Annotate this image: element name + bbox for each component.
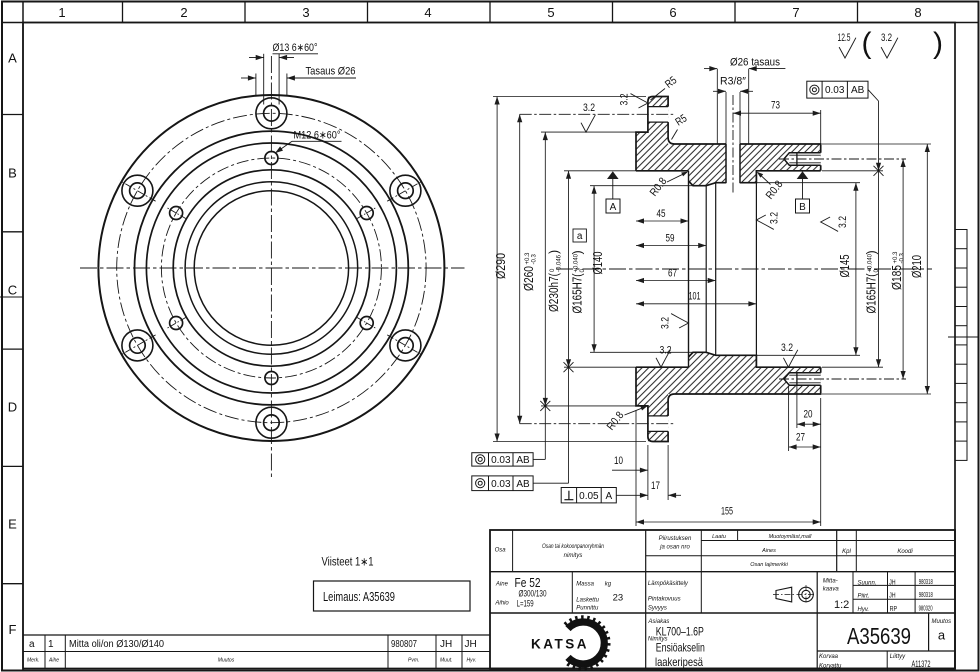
dimension 73 [733,112,821,114]
svg-text:A: A [8,51,17,66]
svg-text:101: 101 [689,291,701,303]
svg-text:A: A [605,491,612,502]
svg-text:67: 67 [668,268,677,280]
svg-text:3.2: 3.2 [583,102,595,114]
front view circle D130 bore (pre-revision) [194,191,348,345]
svg-text:+0.3: +0.3 [525,252,531,265]
svg-text:Korvaa: Korvaa [819,654,839,660]
svg-text:3.2: 3.2 [781,342,793,354]
svg-text:Viisteet 1∗1: Viisteet 1∗1 [322,557,374,569]
front view bolt circle D185 for M12 [161,158,381,378]
front view horizontal centerline [80,267,465,269]
title block verticals [512,530,514,572]
front view tapped holes M12 at 6x60 [265,152,278,165]
dimension D260 +0.3 -0.3 [519,114,521,423]
svg-text:Lämpökäsittely: Lämpökäsittely [648,581,689,587]
svg-text:AB: AB [851,85,865,96]
svg-text:JH: JH [440,639,452,650]
svg-text:2: 2 [180,5,187,20]
svg-text:Osan tai kokoonpanoryhmän: Osan tai kokoonpanoryhmän [542,544,605,550]
front view circle D165H7 bore [173,170,369,366]
left margin centering tick [0,296,23,298]
svg-text:Leimaus: A35639: Leimaus: A35639 [323,590,395,604]
svg-text:JH: JH [889,593,896,600]
svg-text:23: 23 [613,593,624,604]
svg-text:+0.040: +0.040 [573,253,579,272]
svg-text:3: 3 [302,5,309,20]
svg-text:Ø290: Ø290 [493,253,508,279]
svg-text:0.03: 0.03 [491,479,511,490]
svg-text:): ) [933,27,943,60]
svg-text:Muotoymläst,mall: Muotoymläst,mall [769,534,813,540]
dimension D290 [493,96,646,98]
section bolt hole top walls [648,106,668,108]
svg-text:Hyv.: Hyv. [467,658,477,664]
svg-text:AB: AB [516,455,530,466]
svg-text:Ø165H7(: Ø165H7( [865,273,879,314]
svg-text:A: A [610,202,617,213]
dimension 59 [636,245,706,247]
svg-text:Laskettu: Laskettu [576,598,599,604]
dimension R3/8 [725,92,727,144]
svg-text:F: F [9,622,17,637]
svg-text:Piirustuksen: Piirustuksen [659,536,692,542]
svg-text:): ) [865,250,879,254]
svg-text:Ø13 6∗60°: Ø13 6∗60° [273,42,318,54]
svg-text:Osan lajimerkki: Osan lajimerkki [750,562,788,568]
section R3/8 hole axis centerline [732,95,734,195]
svg-text:Ø165H7(: Ø165H7( [571,273,585,314]
svg-text:Ø230h7(: Ø230h7( [547,272,561,312]
svg-text:-0.3: -0.3 [899,252,905,263]
svg-text:3.2: 3.2 [619,94,631,106]
section hatch flange rim bottom [648,406,668,442]
svg-text:L=159: L=159 [517,599,534,610]
section bore edge D140 end [705,186,707,353]
svg-text:Punnittu: Punnittu [576,606,599,612]
dimension D26 tasaus [716,69,718,144]
revision table lines [23,634,490,636]
svg-text:+0.040: +0.040 [867,253,873,272]
section outline bottom bore [636,352,821,367]
white-out tapped hole right bottom [784,373,821,385]
svg-text:Koodi: Koodi [897,549,913,555]
dimension D185 +0.3 -0.3 [902,159,904,379]
dimension Tasaus D26 with leader [255,74,257,97]
svg-text:59: 59 [666,233,675,245]
row tick marks left [2,114,23,116]
section hatch flange mid top [636,132,668,171]
section tapped hole right bottom centerline [779,378,906,380]
svg-text:45: 45 [657,208,666,220]
datum A triangle and box [607,171,619,179]
svg-text:Piirt.: Piirt. [858,594,870,600]
section hatch body bottom [668,352,821,394]
white-out R3/8 hole [726,144,740,183]
svg-text:-0.3: -0.3 [531,253,537,264]
svg-text:Ø145: Ø145 [837,255,852,278]
front view circle D210 body [146,143,396,393]
section outline top bore [636,171,821,186]
svg-text:a: a [29,639,35,650]
dimension 45 [636,220,689,222]
section hatch body top [668,144,821,186]
svg-text:E: E [8,517,17,532]
svg-text:ja osan nro: ja osan nro [659,545,690,551]
svg-text:Aihio: Aihio [494,601,509,607]
left label strip line [22,2,24,671]
title block horizontals [701,540,955,542]
stamp box Leimaus A35639 [314,581,471,611]
svg-text:kg: kg [605,582,612,588]
dimension D230h7 [541,131,636,133]
svg-text:): ) [547,250,561,254]
top label strip line [2,22,979,24]
svg-text:Merk.: Merk. [27,658,40,664]
svg-text:B: B [8,166,17,181]
svg-text:Mitta oli/on Ø130/Ø140: Mitta oli/on Ø130/Ø140 [69,639,164,650]
dimension 155 [635,410,637,526]
svg-text:980320: 980320 [919,606,933,613]
section bolt hole top centerline [520,113,674,115]
front view circle D145 bore [185,182,358,355]
section bolt hole bottom centerline [520,423,674,425]
svg-text:Ø260: Ø260 [522,266,536,291]
front view vertical centerline [270,56,272,477]
svg-text:Ensiöakselin: Ensiöakselin [656,641,705,655]
svg-text:JH: JH [465,639,477,650]
svg-text:nimitys: nimitys [564,553,583,559]
svg-text:laakeripesä: laakeripesä [655,655,703,669]
svg-text:Syvyys: Syvyys [648,606,667,612]
section tapped hole right top centerline [779,158,906,160]
svg-text:3.2: 3.2 [837,216,849,228]
svg-text:Ø210: Ø210 [909,255,924,278]
svg-text:6: 6 [669,5,676,20]
svg-text:73: 73 [771,100,780,112]
svg-text:3.2: 3.2 [769,212,781,224]
section tapped hole right bottom outline [784,373,821,385]
section bore edge D145 start [715,183,717,356]
svg-text:Muutos: Muutos [932,619,952,625]
svg-text:AB: AB [516,479,530,490]
svg-text:27: 27 [796,432,805,444]
dimension D145 [757,182,860,184]
svg-text:8: 8 [914,5,921,20]
white-out bolt hole in flange top [648,107,668,123]
svg-text:0.05: 0.05 [579,491,599,502]
svg-text:3.2: 3.2 [660,317,672,329]
front view circle D230h7 spigot [135,131,409,405]
revision marker a box [573,229,586,242]
right margin centering tick [948,336,979,338]
column tick marks top [122,2,124,23]
svg-text:Ø185: Ø185 [890,265,904,290]
section R3/8 hole walls [725,144,727,183]
dimension D165H7 right [822,170,883,172]
svg-text:3.2: 3.2 [881,32,892,44]
dimension 10 [612,469,648,471]
dimension D165H7 left [564,170,636,172]
white-out bolt hole in flange bottom [648,416,668,432]
front view outer circle D290 [98,95,444,441]
svg-text:1: 1 [58,5,65,20]
dimension D140 [590,185,693,187]
datum B triangle and box [797,171,809,179]
dimension D210 [822,143,931,145]
svg-text:+0.3: +0.3 [893,251,899,264]
svg-text:Massa: Massa [576,582,594,588]
svg-text:Pintakovuus: Pintakovuus [648,597,681,603]
svg-text:R3/8″: R3/8″ [720,76,746,88]
svg-text:20: 20 [804,409,813,421]
section outline bottom outer [636,367,821,441]
svg-text:980318: 980318 [919,592,933,599]
svg-text:Muut.: Muut. [440,658,453,664]
svg-text:0.03: 0.03 [491,455,511,466]
right margin scale ruler [955,230,967,461]
svg-text:Ø26 tasaus: Ø26 tasaus [730,57,780,69]
section main centerline [556,268,932,270]
svg-text:A35639: A35639 [847,623,911,649]
svg-text:Osa: Osa [495,548,507,554]
feature control frame perpendicularity 0.05 A [561,488,616,503]
svg-text:RP: RP [890,606,898,613]
svg-text:155: 155 [721,506,733,518]
svg-text:KATSA: KATSA [531,637,589,652]
svg-text:0.03: 0.03 [825,85,845,96]
svg-text:Tasaus Ø26: Tasaus Ø26 [306,66,356,78]
feature control frame concentricity 0.03 AB top right [807,81,868,98]
dimension D13 6x60 with extension lines [263,54,265,105]
section tapped hole right top outline [784,153,821,165]
section bore step edge D145/D165 [755,171,757,367]
dimension 17 [647,445,649,500]
projection symbol first angle [776,587,792,602]
svg-text:Pvm.: Pvm. [408,658,419,664]
svg-text:7: 7 [792,5,799,20]
svg-text:C: C [8,283,17,298]
svg-text:980807: 980807 [391,639,417,650]
section outline top outer [636,97,821,171]
front view bolt holes D13/D26 at 6x60 [256,98,287,129]
svg-text:(: ( [862,27,872,60]
svg-text:4: 4 [424,5,431,20]
dimension 101 [636,303,756,305]
front view bolt circle D260 [117,113,426,422]
svg-text:a: a [938,628,946,643]
svg-text:Aines: Aines [761,548,776,554]
svg-text:Aine: Aine [495,582,509,588]
svg-text:M12 6∗60°: M12 6∗60° [294,130,341,142]
white-out tapped hole right top [784,153,821,165]
svg-text:B: B [799,202,806,213]
svg-text:12.5: 12.5 [838,32,851,44]
svg-text:JH: JH [889,580,896,587]
svg-text:Korvattu: Korvattu [819,664,842,670]
KATSA logo gear [565,618,608,668]
section bolt hole bottom walls [648,415,668,417]
svg-text:): ) [571,250,585,254]
svg-text:1: 1 [48,639,54,650]
dimension 20 [796,386,798,428]
section bore step edge D165/D140 [688,171,690,367]
svg-text:Liittyy: Liittyy [890,654,906,660]
svg-text:Aihe: Aihe [48,658,59,664]
svg-text:1:2: 1:2 [834,599,849,611]
dimension 67 [636,280,716,282]
section hatch flange mid bottom [636,367,668,406]
svg-text:Hyv.: Hyv. [858,607,870,613]
svg-text:Kpl: Kpl [842,549,851,555]
svg-text:a: a [577,231,583,242]
svg-text:Laatu: Laatu [712,534,726,540]
svg-text:Muutos: Muutos [218,658,235,664]
svg-text:17: 17 [651,480,660,492]
dimension 27 [788,386,790,451]
feature control frame concentricity 0.03 AB left lower [472,476,533,491]
svg-text:Ø140: Ø140 [590,252,605,275]
feature control frame concentricity 0.03 AB left upper [472,453,533,466]
title block outer box [490,530,955,669]
svg-text:D: D [8,400,17,415]
svg-text:-0.046: -0.046 [556,254,562,272]
svg-text:Mitta-: Mitta- [823,579,838,585]
svg-text:10: 10 [614,455,623,467]
section hatch flange rim top [648,97,668,133]
svg-text:kaava: kaava [823,587,840,593]
svg-text:A11372: A11372 [912,659,931,669]
svg-text:5: 5 [547,5,554,20]
svg-text:Suunn.: Suunn. [858,581,877,587]
svg-text:980318: 980318 [919,579,933,586]
